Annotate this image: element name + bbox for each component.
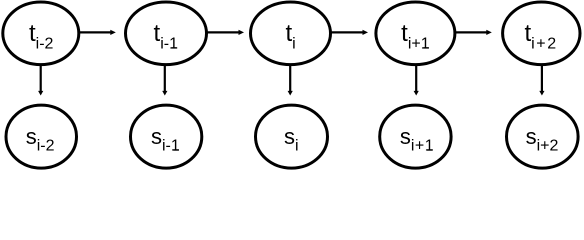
node t_i-1 ellipse (126, 2, 207, 65)
node t_i+1 ellipse (376, 2, 455, 65)
arrow t_i to t_i+1 (332, 30, 369, 35)
node s_i+2 ellipse (507, 105, 579, 168)
node s_i-2 ellipse (6, 105, 77, 168)
foot serif of digit 1 in label s_i+1 (427, 149, 433, 150)
node t_i ellipse (251, 2, 331, 65)
arrow t_i-1 to s_i-1 (162, 65, 167, 96)
node s_i+1 ellipse (380, 105, 451, 168)
foot serif of digit 1 in label t_i-1 (171, 47, 177, 48)
node t_i-2 ellipse (3, 2, 79, 65)
arrow t_i to s_i (288, 65, 293, 96)
arrow t_i+1 to s_i+1 (414, 65, 419, 96)
node s_i-1 ellipse (131, 105, 202, 168)
arrow t_i+2 to s_i+2 (539, 65, 544, 96)
arrow t_i-2 to t_i-1 (80, 30, 116, 35)
arrow t_i+1 to t_i+2 (456, 30, 492, 35)
node s_i ellipse (256, 105, 328, 168)
foot serif of digit 1 in label t_i+1 (423, 47, 429, 48)
node t_i+2 ellipse (503, 2, 580, 65)
arrow t_i-1 to t_i (208, 30, 245, 35)
arrow t_i-2 to s_i-2 (38, 65, 43, 96)
foot serif of digit 1 in label s_i-1 (173, 149, 179, 150)
